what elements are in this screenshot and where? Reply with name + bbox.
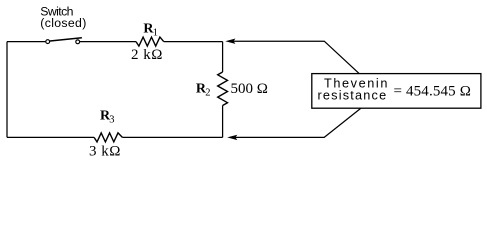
label R2 (196, 82, 211, 99)
pointer line top (from box to top wire) (234, 41, 360, 73)
wire bottom left segment (7, 136, 94, 138)
wire bottom right segment (122, 136, 222, 138)
wire top left segment (7, 41, 45, 43)
svg-text:500 Ω: 500 Ω (231, 81, 268, 97)
wire top right segment (164, 41, 223, 43)
wire right vertical lower (222, 106, 224, 138)
svg-text:2: 2 (205, 88, 210, 99)
svg-text:3 kΩ: 3 kΩ (89, 144, 121, 160)
Thevenin resistance callout box (312, 74, 481, 109)
label R3 (100, 109, 115, 126)
svg-text:2 kΩ: 2 kΩ (131, 47, 163, 63)
arrowhead top (225, 39, 235, 44)
label Thevenin resistance (318, 77, 390, 103)
wire top between switch and R1 (80, 41, 136, 43)
svg-text:resistance: resistance (318, 89, 388, 103)
wire left vertical (6, 42, 8, 138)
pointer line bottom (from box to bottom wire) (235, 108, 361, 137)
svg-text:= 454.545 Ω: = 454.545 Ω (394, 84, 472, 100)
arrowhead bottom (227, 135, 237, 140)
label R1 (143, 21, 158, 38)
switch SW1 (closed) (46, 38, 82, 44)
resistor R3 (94, 133, 122, 142)
svg-text:(closed): (closed) (40, 16, 86, 30)
svg-text:1: 1 (153, 28, 158, 39)
svg-text:3: 3 (109, 115, 114, 126)
resistor R2 (218, 72, 228, 106)
wire right vertical upper (222, 42, 224, 72)
resistor R1 (136, 37, 164, 46)
label Switch (closed) (40, 5, 86, 30)
